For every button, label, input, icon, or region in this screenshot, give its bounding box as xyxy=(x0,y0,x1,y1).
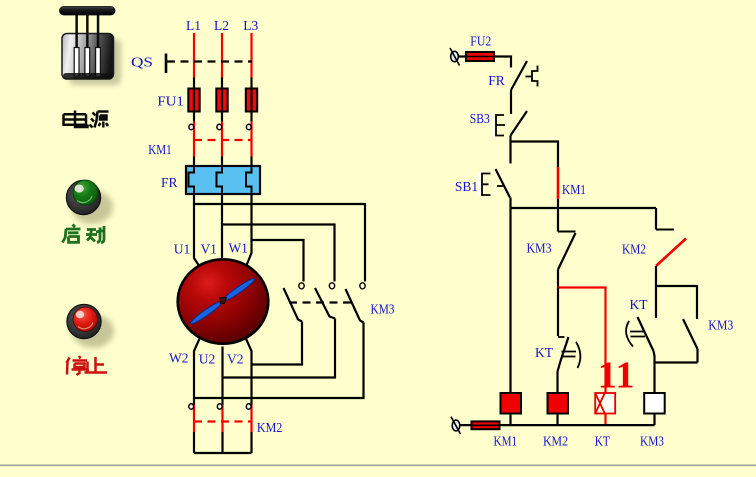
KM3 NC branch wire xyxy=(655,208,657,230)
svg-text:KM3: KM3 xyxy=(527,241,552,256)
KM3 contact 3 wire down to W2 xyxy=(194,323,364,399)
KT NO delay arc xyxy=(626,321,633,347)
wires into FR xyxy=(194,157,252,167)
contactor KM3 contact 1 circle xyxy=(299,283,304,289)
SB1 fixed contact tick xyxy=(497,185,503,187)
KT coil X mark xyxy=(595,393,605,414)
svg-text:FU1: FU1 xyxy=(157,94,184,109)
wire V2 from motor down xyxy=(245,337,252,406)
label 电源 (power) xyxy=(64,111,109,128)
KM2 closed blades (red) xyxy=(194,405,252,433)
contactor KM2 star contact 2 circle xyxy=(217,404,222,409)
terminal (bottom) xyxy=(452,420,460,431)
FR heater element 1 xyxy=(189,166,195,194)
wire L3 incoming (red) xyxy=(250,33,252,78)
wire junction to KT coil branch (red) xyxy=(557,288,606,394)
motor M body xyxy=(178,259,269,343)
svg-text:U1: U1 xyxy=(174,242,191,257)
wire below KM2 NC, split xyxy=(656,266,697,319)
svg-text:FU2: FU2 xyxy=(470,34,491,49)
KM3 NC contact blade xyxy=(558,233,576,270)
svg-text:V1: V1 xyxy=(200,242,217,257)
fuse FU2 xyxy=(466,52,494,61)
KM1 self-hold contact closed (red) xyxy=(557,167,560,199)
KM3 contact 1 wire down to V2 xyxy=(252,322,303,365)
wire fuse to FR contact xyxy=(494,57,511,68)
fuse FU1 phase2 xyxy=(216,89,227,112)
motor propeller blade 1 (blue) xyxy=(189,299,224,326)
white artifact strip xyxy=(478,172,482,195)
KM2 linkage (red dashed) xyxy=(194,420,252,422)
FR heater element 3 xyxy=(246,166,252,194)
svg-text:KM1: KM1 xyxy=(148,142,172,157)
svg-text:KM1: KM1 xyxy=(562,182,586,197)
wire L2 to fuse xyxy=(221,78,223,90)
contactor KM3 contact 3 circle xyxy=(360,283,365,289)
wire terminal to fuse xyxy=(458,55,466,57)
middle branch from bus xyxy=(557,208,559,232)
contactor KM1 main contact 3 xyxy=(246,124,251,129)
KT NC contact blade xyxy=(558,337,569,372)
label 启动 (start) xyxy=(63,225,105,243)
wire W phase down to motor xyxy=(246,194,252,267)
KM1 coil branch wire xyxy=(509,208,511,393)
contactor KM1 main contact 1 (fixed contact circle) xyxy=(189,124,194,129)
bottom bus xyxy=(460,424,655,426)
svg-text:KM3: KM3 xyxy=(371,302,395,317)
green start button xyxy=(66,180,113,224)
svg-text:V2: V2 xyxy=(227,351,244,366)
switch QS linkage (dashed) xyxy=(167,60,252,62)
red stop button xyxy=(67,304,114,348)
KM2 NC contact hook xyxy=(656,229,674,231)
SB3 actuator bracket xyxy=(496,115,505,136)
KT NO delay ticks xyxy=(630,332,645,337)
svg-text:KM3: KM3 xyxy=(708,318,733,333)
KM3 contact 2 wire down to U2 xyxy=(223,319,336,378)
wire FR to SB3 xyxy=(510,90,512,114)
terminal (top) xyxy=(451,51,459,61)
knife-switch power icon QS xyxy=(60,7,122,86)
KM3 NC contact hook xyxy=(558,231,576,233)
contactor KM1 main contact 2 xyxy=(217,124,222,129)
KM1 linkage (red dashed) xyxy=(194,139,252,141)
fuse FU1 phase1 xyxy=(188,89,199,112)
KT NC delay ticks xyxy=(561,352,576,357)
svg-text:W1: W1 xyxy=(228,241,248,256)
join wires to KM3 coil xyxy=(654,349,698,393)
coil KT (active, red outline) xyxy=(595,393,615,414)
contactor KM2 star contact 3 circle xyxy=(246,404,251,409)
thermal relay FR box xyxy=(186,166,260,194)
svg-text:KM2: KM2 xyxy=(543,434,568,449)
wire V phase down to motor xyxy=(221,194,223,260)
svg-text:U2: U2 xyxy=(199,351,216,366)
FR fixed contact tick xyxy=(526,76,532,78)
KM3 contact 1 blade (open) xyxy=(284,288,303,322)
coil KM1 xyxy=(501,393,522,414)
wire U2 from motor down xyxy=(221,347,223,406)
KT NC delay arc xyxy=(576,342,580,368)
SB1 actuator bracket xyxy=(482,174,491,196)
svg-text:KT: KT xyxy=(595,434,611,449)
white artifact strip xyxy=(493,112,496,137)
svg-text:KM1: KM1 xyxy=(494,434,518,449)
wire U phase down to motor xyxy=(194,194,200,267)
svg-text:W2: W2 xyxy=(169,351,189,366)
KM2 NC contact blade open (red) xyxy=(656,239,686,267)
switch QS handle bar xyxy=(165,54,168,74)
contactor KM2 star contact 1 circle xyxy=(189,404,194,409)
wires to top bus xyxy=(511,198,559,209)
wire L1 incoming (red) xyxy=(193,33,195,78)
wire W branch to delta contact (left) xyxy=(252,240,304,282)
motor propeller blade 2 (blue) xyxy=(221,276,256,303)
wire V branch to delta contact (middle) xyxy=(222,225,335,282)
coil KM2 xyxy=(548,393,569,414)
KT NO delayed contact blade xyxy=(638,317,654,351)
wire L1 to fuse xyxy=(193,78,195,90)
KT NC delayed contact hook xyxy=(558,336,565,338)
svg-text:SB3: SB3 xyxy=(470,111,490,126)
svg-text:FR: FR xyxy=(161,175,178,190)
pushbutton SB3 (NC) blade xyxy=(511,111,528,136)
KT coil to bus (red) xyxy=(604,414,606,426)
KM3 contact 2 blade (open) xyxy=(315,288,335,319)
KM3 NO aux contact blade xyxy=(683,319,698,349)
svg-text:KT: KT xyxy=(535,345,554,360)
FR thermal element symbol xyxy=(532,66,538,87)
wire L2 incoming (red) xyxy=(221,33,223,78)
svg-text:KM2: KM2 xyxy=(622,242,646,257)
svg-text:L2: L2 xyxy=(214,18,229,33)
svg-text:KM3: KM3 xyxy=(640,434,664,449)
star point tie bar xyxy=(194,452,252,454)
svg-text:QS: QS xyxy=(131,55,153,70)
svg-text:1: 1 xyxy=(616,355,635,397)
wire L3 to fuse xyxy=(250,78,252,90)
fuse on bottom bus xyxy=(472,421,500,429)
wire W2 from motor down xyxy=(194,337,201,406)
bottom frame line xyxy=(0,465,756,467)
wire U branch to delta contact (right) xyxy=(194,204,365,282)
KM3 linkage dashed xyxy=(289,301,356,303)
top bus xyxy=(511,207,657,209)
coil KM3 xyxy=(644,393,665,414)
pushbutton SB1 (NO) blade xyxy=(496,169,511,198)
svg-text:1: 1 xyxy=(598,355,617,397)
motor propeller hub xyxy=(220,298,227,304)
svg-text:FR: FR xyxy=(488,73,505,88)
wire to red junction xyxy=(557,270,559,288)
svg-text:L3: L3 xyxy=(243,18,258,33)
fuse FU1 phase3 xyxy=(246,89,257,112)
FR NC contact blade xyxy=(511,61,527,90)
FR heater element 2 xyxy=(217,166,223,194)
contactor KM3 contact 2 circle xyxy=(329,283,334,289)
wire KM3NC to KT NC contact xyxy=(557,288,559,337)
wire to KM2 coil xyxy=(556,372,558,394)
svg-text:SB1: SB1 xyxy=(455,179,478,194)
svg-text:L1: L1 xyxy=(186,18,201,33)
KM1 closed blades (red) xyxy=(194,122,252,157)
svg-text:KT: KT xyxy=(630,297,649,312)
KM3 contact 3 blade (open) xyxy=(346,289,364,323)
wire SB3 down / junction to KM1 aux branch xyxy=(511,136,559,168)
star point wires xyxy=(194,432,252,453)
svg-text:KM2: KM2 xyxy=(257,420,283,435)
label 停止 (stop) xyxy=(67,356,108,375)
